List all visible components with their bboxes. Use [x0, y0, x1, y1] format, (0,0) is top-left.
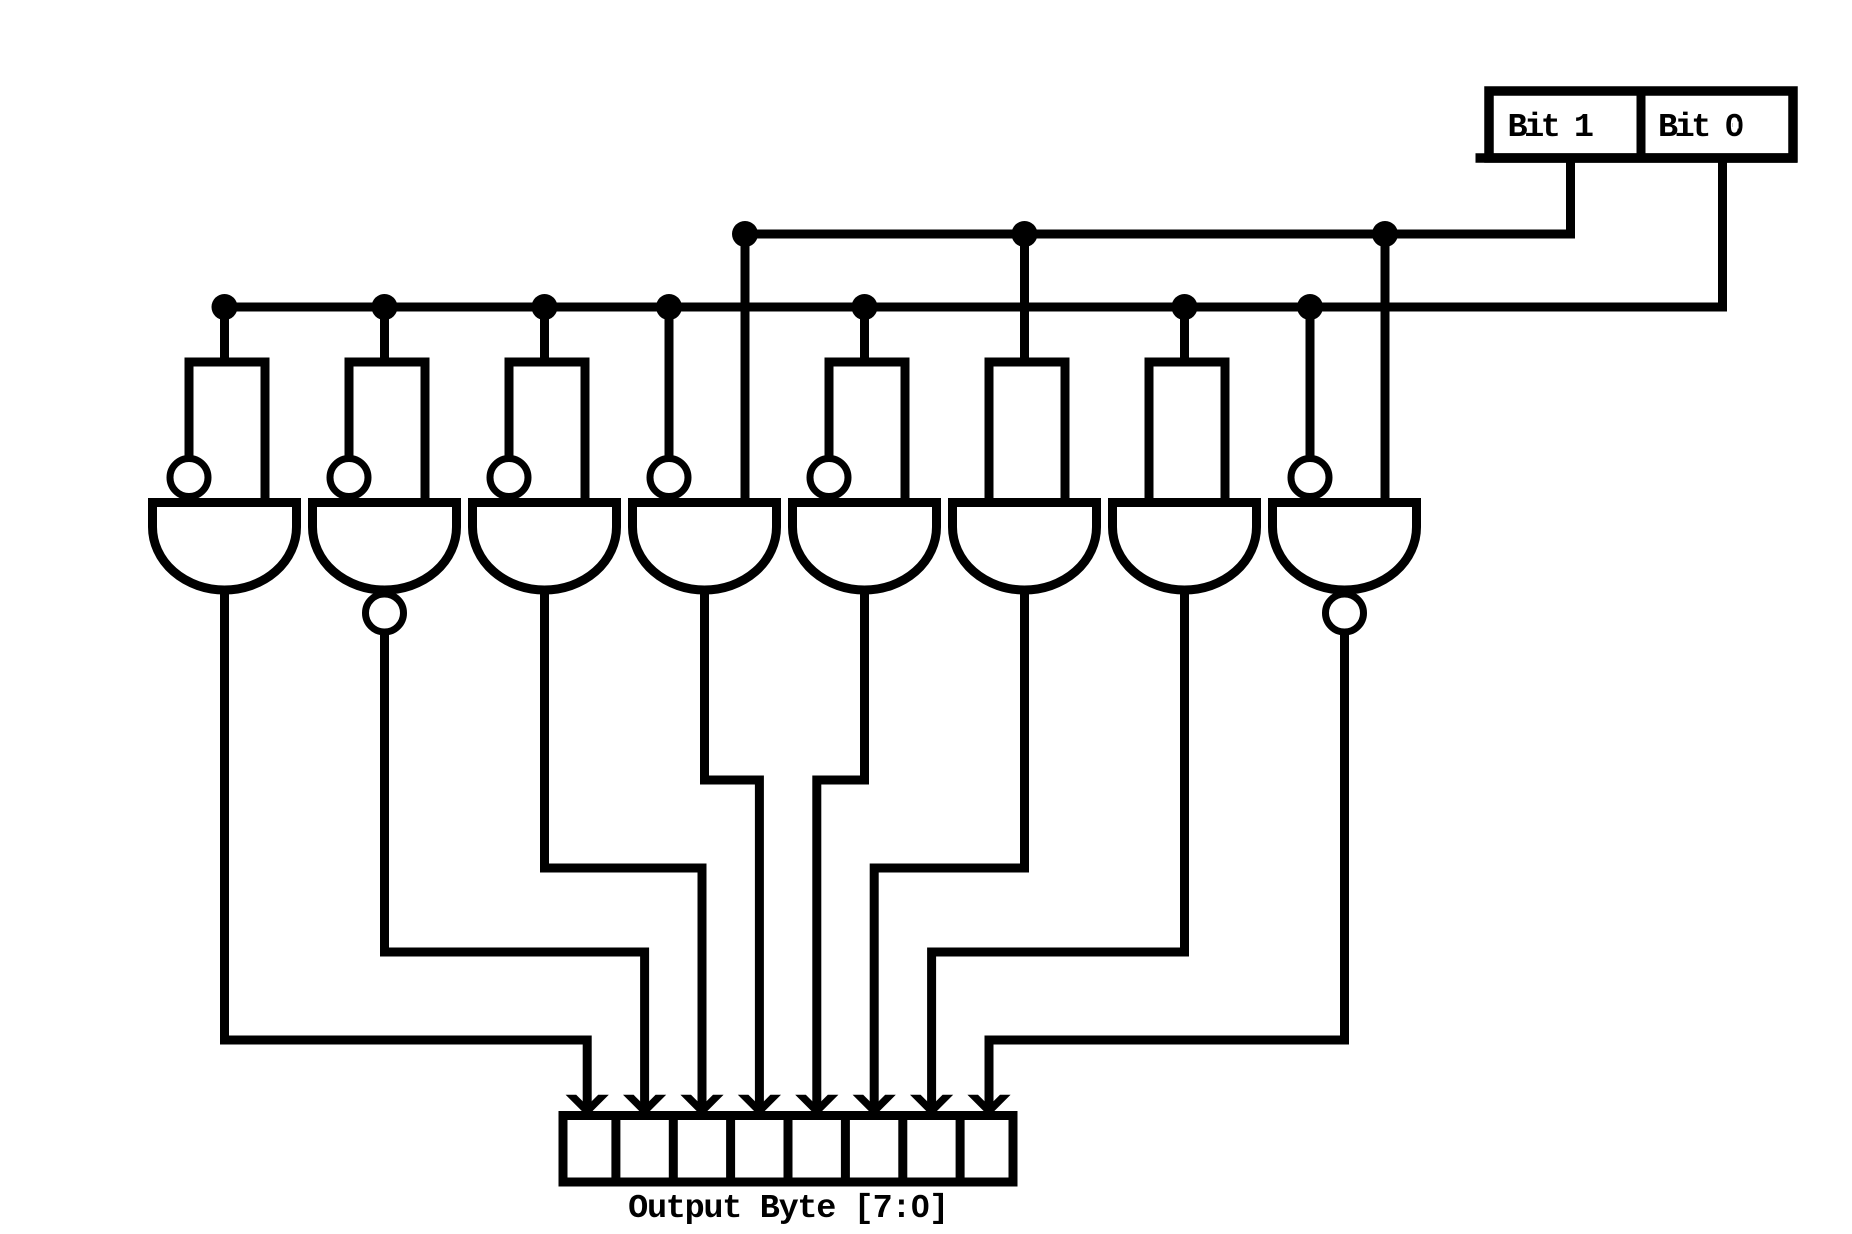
zero glyph patch Output Byte [918, 1203, 924, 1209]
gate G8 output bubble [1326, 594, 1364, 632]
junction dot upper bus @1385 [1372, 221, 1398, 247]
wire G4 output to bit4 arrow [705, 589, 760, 1107]
arrowhead bit3 [795, 1095, 838, 1117]
junction dot lower bus @384.5 [372, 294, 398, 320]
arrowhead bit5 [680, 1095, 723, 1117]
wire G5 output to bit3 arrow [817, 589, 865, 1107]
zero glyph patch Bit 0 [1733, 122, 1739, 129]
wire G1 output to bit7 arrow [225, 589, 588, 1107]
junction dot upper bus @1024.5 [1012, 221, 1038, 247]
gate G2 input fork from Bit0 [349, 307, 425, 503]
wire Bit1 from register to upper bus [745, 158, 1571, 234]
junction dot lower bus @544.5 [532, 294, 558, 320]
gate G5 input fork from Bit0 [829, 307, 905, 503]
gate G2 output bubble [366, 594, 404, 632]
wire G6 output to bit2 arrow [874, 589, 1024, 1107]
arrowhead bit2 [853, 1095, 896, 1117]
junction dot lower bus @1184.5 [1172, 294, 1198, 320]
junction dot lower bus @669 [656, 294, 682, 320]
wire G7 output to bit1 arrow [932, 589, 1185, 1107]
gate G3 input fork from Bit0 [509, 307, 585, 503]
gate G4 right input wire from Bit1 [741, 234, 750, 503]
arrowhead bit4 [738, 1095, 781, 1117]
gate G6 input fork from Bit1 [989, 234, 1065, 503]
gate G8 left input wire from Bit0 [1306, 307, 1315, 456]
gate G4 left input wire from Bit0 [665, 307, 674, 456]
output register box [563, 1116, 1013, 1183]
gate G3 input bubble [490, 459, 528, 497]
input register box Bit1/Bit0 [1476, 91, 1798, 158]
gate G2 input bubble [330, 459, 368, 497]
wire G2 output to bit6 arrow [385, 635, 645, 1107]
arrowhead bit0 [967, 1095, 1010, 1117]
AND gate G6 [953, 503, 1097, 591]
junction dot lower bus @864.5 [852, 294, 878, 320]
gate G8 right input wire from Bit1 [1381, 234, 1390, 503]
gate G5 input bubble [810, 459, 848, 497]
svg-text:Bit 1: Bit 1 [1507, 109, 1592, 147]
junction dot lower bus @224.5 [212, 294, 238, 320]
gate G4 input bubble [650, 459, 688, 497]
arrowhead bit6 [623, 1095, 666, 1117]
AND gate G5 [793, 503, 937, 591]
gate G7 input fork from Bit0 [1149, 307, 1225, 503]
AND gate G3 [473, 503, 617, 591]
AND gate G4 [633, 503, 777, 591]
svg-text:Output Byte [7:0]: Output Byte [7:0] [628, 1190, 948, 1228]
junction dot upper bus @745 [732, 221, 758, 247]
svg-text:Bit 0: Bit 0 [1658, 109, 1743, 147]
gate G8 input bubble [1291, 459, 1329, 497]
AND gate G7 [1113, 503, 1257, 591]
gate G1 input fork from Bit0 [189, 307, 265, 503]
junction dot lower bus @1310 [1297, 294, 1323, 320]
wire G8 output to bit0 arrow [989, 635, 1345, 1107]
arrowhead bit7 [566, 1095, 609, 1117]
arrowhead bit1 [910, 1095, 953, 1117]
wire G3 output to bit5 arrow [545, 589, 703, 1107]
wire Bit0 from register to lower bus [225, 158, 1723, 307]
AND gate G8 [1273, 503, 1417, 591]
AND gate G2 [313, 503, 457, 591]
gate G1 input bubble [170, 459, 208, 497]
AND gate G1 [153, 503, 297, 591]
